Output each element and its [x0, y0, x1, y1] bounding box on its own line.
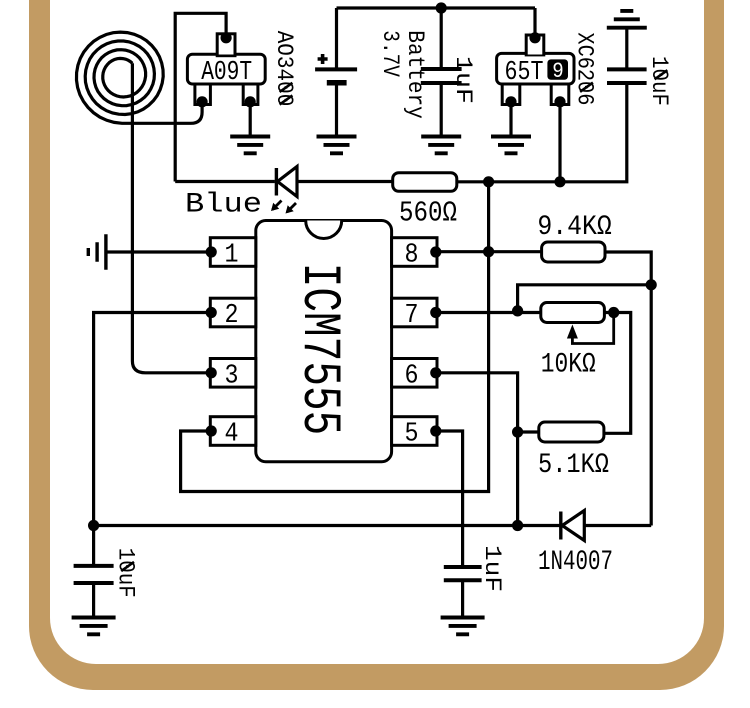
svg-text:ICM7555: ICM7555 [288, 263, 349, 436]
svg-text:6: 6 [405, 362, 419, 392]
potentiometer RV1 10K [541, 303, 605, 381]
label 10uF top right [645, 56, 672, 106]
svg-text:Blue: Blue [185, 190, 262, 221]
wire pin 1 [106, 250, 210, 253]
svg-text:7: 7 [405, 301, 419, 331]
svg-text:1N4007: 1N4007 [538, 547, 613, 578]
svg-text:1uF: 1uF [449, 56, 476, 104]
transistor Q1 body [187, 32, 265, 107]
wire pin 4 loop [181, 182, 495, 492]
pin 6 [392, 359, 442, 392]
svg-text:2: 2 [225, 301, 239, 331]
label ICM7555 [288, 263, 349, 436]
ground under U2 [491, 105, 531, 154]
wire pin 8 [437, 250, 542, 253]
ground under Q1 [230, 105, 270, 154]
ground above C2 [607, 11, 647, 28]
svg-text:5: 5 [405, 420, 419, 450]
label AO3400 [270, 31, 297, 107]
ground under C4 [441, 618, 485, 635]
wire R2 right down [605, 252, 657, 526]
svg-text:5.1KΩ: 5.1KΩ [538, 450, 609, 481]
label Blue [185, 190, 262, 221]
wire coil to pin 3 [132, 63, 210, 373]
svg-text:10uF: 10uF [111, 548, 138, 598]
pin 2 [206, 298, 256, 331]
label 10uF bottom [111, 548, 138, 598]
label 1uF [449, 56, 476, 104]
resistor R3 5.1K [538, 422, 609, 481]
LED D1 blue [276, 167, 297, 197]
svg-text:AO3400: AO3400 [270, 31, 297, 107]
ground under C1 [421, 137, 461, 154]
svg-text:XC6206: XC6206 [570, 32, 597, 105]
svg-text:560Ω: 560Ω [399, 197, 457, 230]
svg-text:Battery: Battery [401, 30, 428, 119]
ground left of pin 1 [88, 234, 106, 269]
resistor R1 560 [393, 173, 457, 192]
pot wiper arrow [567, 307, 619, 344]
capacitor C4 1uF bottom [444, 567, 482, 618]
capacitor C3 10uF bottom left [74, 526, 114, 618]
svg-text:9: 9 [552, 58, 564, 84]
wire pin 2 to bottom [94, 313, 211, 526]
pin 1 [206, 238, 256, 271]
pin 7 [392, 298, 442, 331]
svg-text:10KΩ: 10KΩ [541, 350, 596, 381]
label 1N4007 [538, 547, 613, 578]
wire pot right [604, 313, 631, 434]
wire LED row [175, 180, 393, 183]
diode D2 1N4007 [561, 511, 585, 541]
wire top rail [337, 6, 536, 9]
capacitor C2 10uF [457, 28, 647, 182]
wire vcc row dots [483, 176, 494, 187]
svg-text:1: 1 [225, 241, 239, 271]
inductor coil L1 [77, 32, 203, 123]
label 3.7V Battery [376, 30, 428, 119]
label 560ohm [399, 197, 457, 230]
wire R3 left [518, 430, 539, 433]
wire pin 6 down [437, 373, 523, 531]
wire pin 5 down [437, 431, 463, 567]
IC U3 ICM7555 body [256, 221, 392, 462]
ground under battery [317, 137, 357, 154]
svg-text:8: 8 [405, 241, 419, 271]
pin 4 [206, 417, 256, 450]
wire pot bypass [512, 285, 651, 317]
capacitor C1 1uF [421, 2, 462, 136]
svg-text:3.7V: 3.7V [376, 30, 403, 77]
svg-text:4: 4 [225, 420, 239, 450]
resistor R2 9.4K [537, 212, 612, 262]
pin 8 [392, 238, 442, 271]
battery BT1 [315, 8, 357, 137]
label 1uF bottom [478, 545, 505, 592]
wire diode row [88, 520, 651, 531]
svg-text:3: 3 [225, 362, 239, 392]
svg-text:65T: 65T [505, 57, 544, 87]
wire gate top loop [175, 13, 226, 181]
pin 5 [392, 417, 442, 450]
ground under C3 [72, 618, 116, 635]
wire pin 7 [437, 311, 541, 314]
svg-text:9.4KΩ: 9.4KΩ [537, 212, 612, 243]
wire U2 out down [554, 105, 565, 188]
svg-text:1uF: 1uF [478, 545, 505, 592]
svg-text:10uF: 10uF [645, 56, 672, 106]
svg-text:A09T: A09T [201, 57, 252, 87]
LED arrows [271, 201, 296, 214]
pin 3 [206, 359, 256, 392]
label XC6206 [570, 32, 597, 105]
regulator U2 XC6206 body [497, 8, 574, 107]
